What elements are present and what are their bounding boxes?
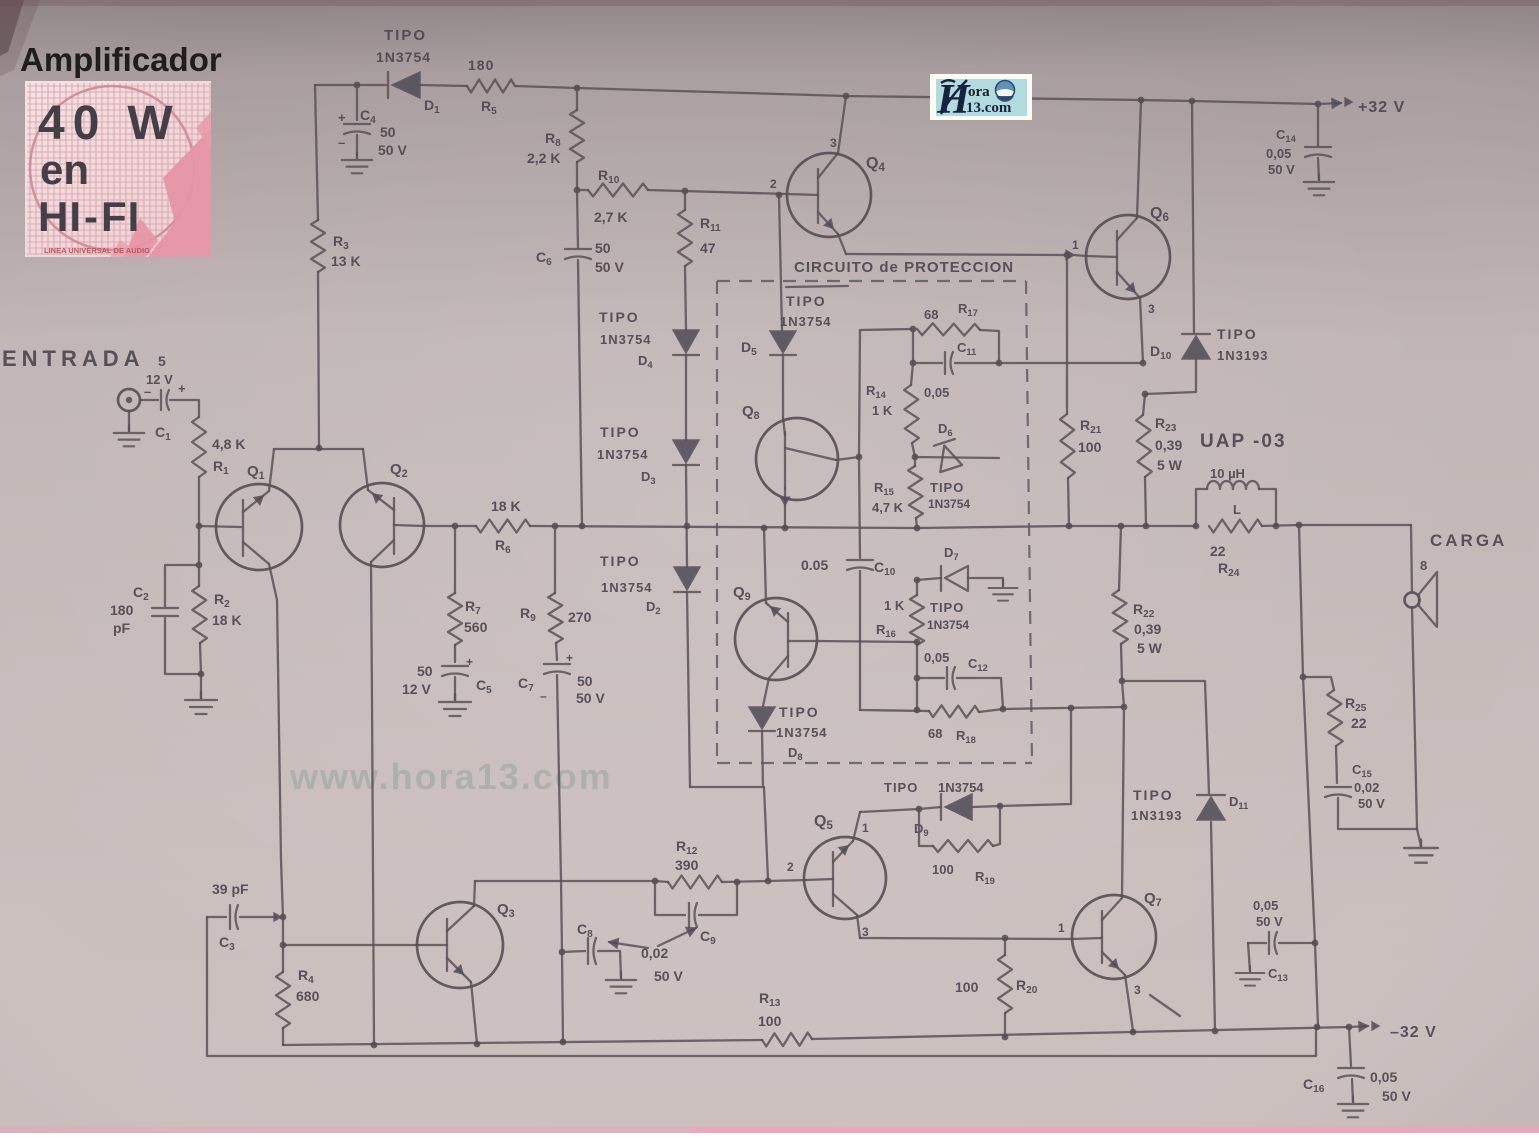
- svg-text:1N3193: 1N3193: [1217, 348, 1269, 363]
- resistor R3 13K: [311, 85, 361, 448]
- capacitor C9 0.02: [655, 881, 737, 947]
- svg-text:1 K: 1 K: [884, 598, 905, 613]
- svg-text:4,8 K: 4,8 K: [212, 436, 245, 452]
- resistor R8 2.2K: [527, 85, 584, 194]
- svg-text:1N3754: 1N3754: [776, 725, 828, 740]
- wire top rail +32V: [315, 84, 386, 86]
- wire bootstrap vertical to -32V junction: [1303, 677, 1318, 1026]
- resistor R25 22: [1299, 525, 1367, 783]
- resistor R11 47: [678, 188, 721, 330]
- resistor R10 2.7K: [577, 167, 787, 225]
- resistor R16 1K: [876, 580, 924, 710]
- resistor R21 100: [1060, 252, 1102, 530]
- capacitor C6 50 50V (bootstrap): [536, 190, 624, 526]
- svg-text:270: 270: [568, 609, 592, 625]
- resistor R18 68: [860, 705, 1006, 745]
- svg-text:TIPO: TIPO: [600, 553, 641, 569]
- svg-text:100: 100: [758, 1013, 782, 1029]
- wire common emitter bus: [274, 448, 363, 450]
- resistor R7 560: [448, 523, 488, 662]
- svg-text:1N3754: 1N3754: [938, 780, 984, 795]
- svg-text:1N3193: 1N3193: [1131, 808, 1183, 823]
- svg-text:180: 180: [110, 602, 134, 618]
- diode D3 1N3754: [597, 424, 699, 567]
- svg-text:12 V: 12 V: [402, 681, 431, 697]
- capacitor C10 0.05: [801, 457, 896, 710]
- svg-text:680: 680: [296, 988, 320, 1004]
- svg-text:18 K: 18 K: [212, 612, 242, 628]
- svg-text:50 V: 50 V: [576, 690, 605, 706]
- capacitor C7 50 50V: [518, 651, 605, 1042]
- +32V terminal: [1315, 98, 1406, 116]
- svg-text:–32 V: –32 V: [1390, 1024, 1437, 1041]
- diode D4 1N3754: [599, 309, 699, 440]
- resistor R17 68 + capacitor C11 0.05 network: [859, 301, 1143, 457]
- svg-text:2,7 K: 2,7 K: [594, 209, 627, 225]
- svg-text:0,39: 0,39: [1155, 437, 1182, 453]
- svg-text:560: 560: [464, 619, 488, 635]
- resistor R9 270: [520, 523, 592, 660]
- svg-text:47: 47: [700, 240, 716, 256]
- svg-text:13.com: 13.com: [966, 100, 1012, 116]
- transistor Q2: [340, 449, 424, 1045]
- svg-text:TIPO: TIPO: [1217, 326, 1258, 342]
- svg-text:UAP -03: UAP -03: [1200, 431, 1287, 452]
- svg-text:22: 22: [1351, 715, 1367, 731]
- svg-text:0,05: 0,05: [924, 385, 949, 400]
- svg-text:50: 50: [417, 663, 433, 679]
- svg-text:CARGA: CARGA: [1430, 531, 1507, 550]
- wire feedback bottom line: [207, 917, 1316, 1056]
- svg-text:L: L: [1233, 502, 1241, 517]
- diode D2 1N3754: [600, 553, 700, 787]
- svg-text:100: 100: [1078, 439, 1102, 455]
- resistor R15 4.7K: [872, 457, 923, 531]
- svg-text:2: 2: [770, 177, 777, 191]
- svg-text:ora: ora: [968, 84, 990, 100]
- svg-text:1N3754: 1N3754: [927, 618, 969, 632]
- transistor Q1: [216, 449, 302, 917]
- capacitor C2 180pF: [110, 562, 202, 674]
- inductor L 10uH with resistor R24 22: [1193, 466, 1276, 579]
- svg-text:TIPO: TIPO: [930, 480, 964, 495]
- transistor Q9: [733, 525, 917, 706]
- svg-text:8: 8: [1420, 558, 1427, 573]
- svg-text:50 V: 50 V: [1268, 162, 1295, 177]
- resistor R22 0.39 5W: [1112, 523, 1162, 685]
- svg-text:50 V: 50 V: [654, 968, 683, 984]
- resistor R20 100: [955, 935, 1038, 1041]
- wire Q3 collector to R12: [475, 880, 655, 882]
- capacitor C4 50 50V: [338, 82, 407, 174]
- resistor R4 680: [276, 945, 320, 1045]
- svg-text:CIRCUITO de PROTECCION: CIRCUITO de PROTECCION: [794, 259, 1014, 276]
- capacitor C13 0.05 50V: [1236, 898, 1319, 986]
- svg-text:TIPO: TIPO: [930, 600, 964, 615]
- svg-text:–: –: [338, 135, 345, 150]
- svg-text:3: 3: [1134, 983, 1141, 997]
- svg-text:0,05: 0,05: [1253, 898, 1278, 913]
- transistor Q5: [768, 812, 886, 939]
- svg-text:50: 50: [380, 124, 396, 140]
- svg-text:0.05: 0.05: [801, 557, 828, 573]
- svg-text:ENTRADA: ENTRADA: [2, 346, 145, 371]
- svg-text:1 K: 1 K: [872, 403, 893, 418]
- svg-text:2,2 K: 2,2 K: [527, 150, 560, 166]
- svg-text:+32 V: +32 V: [1358, 99, 1405, 116]
- svg-text:TIPO: TIPO: [1133, 787, 1174, 803]
- svg-text:LINEA UNIVERSAL DE AUDIO: LINEA UNIVERSAL DE AUDIO: [44, 246, 150, 255]
- svg-text:50 V: 50 V: [1382, 1088, 1411, 1104]
- svg-text:0,05: 0,05: [924, 650, 949, 665]
- svg-text:–: –: [144, 384, 151, 399]
- speaker CARGA: [1404, 525, 1507, 863]
- svg-text:50: 50: [577, 673, 593, 689]
- svg-text:68: 68: [924, 307, 938, 322]
- magazine badge 40W en HI-FI: [25, 81, 211, 257]
- capacitor C1: [144, 381, 199, 443]
- svg-text:13 K: 13 K: [331, 253, 361, 269]
- svg-text:1N3754: 1N3754: [601, 580, 653, 595]
- svg-text:TIPO: TIPO: [786, 293, 827, 309]
- resistor R2 18K: [185, 526, 242, 714]
- wire R22 bottom to D11: [1122, 681, 1209, 793]
- svg-text:390: 390: [675, 857, 699, 873]
- svg-text:1: 1: [862, 821, 869, 835]
- wire -32V rail: [283, 1040, 762, 1045]
- diode D7 1N3754: [914, 545, 1018, 632]
- capacitor C15 0.02 50V: [1325, 762, 1417, 829]
- svg-text:50 V: 50 V: [595, 259, 624, 275]
- svg-text:3: 3: [830, 136, 837, 150]
- svg-text:TIPO: TIPO: [599, 309, 640, 325]
- svg-text:50: 50: [595, 240, 611, 256]
- svg-text:5 W: 5 W: [1157, 457, 1183, 473]
- svg-text:+: +: [338, 110, 346, 125]
- svg-text:en: en: [40, 146, 89, 193]
- svg-text:2: 2: [787, 860, 794, 874]
- hora13 logo: [930, 74, 1032, 123]
- svg-text:1N3754: 1N3754: [780, 314, 832, 329]
- capacitor C8 0.02 50V: [559, 921, 637, 993]
- resistor R23 0.39 5W: [1136, 394, 1182, 529]
- capacitor C3 39pF: [207, 881, 286, 953]
- transistor Q3: [417, 881, 515, 1044]
- resistor R5 180: [467, 57, 515, 117]
- svg-text:100: 100: [955, 979, 979, 995]
- transistor Q8: [742, 403, 859, 528]
- svg-text:39 pF: 39 pF: [212, 881, 249, 897]
- capacitor C14 0.05 50V: [1266, 104, 1334, 195]
- resistor R14 1K: [866, 363, 949, 460]
- svg-text:18 K: 18 K: [491, 498, 521, 514]
- capacitor C12 0.05: [914, 650, 1003, 708]
- svg-text:22: 22: [1210, 543, 1226, 559]
- svg-text:0,05: 0,05: [1370, 1069, 1397, 1085]
- -32V terminal: [1349, 1022, 1437, 1041]
- diode D5 1N3754: [741, 192, 848, 418]
- svg-text:TIPO: TIPO: [600, 424, 641, 440]
- diode D11 1N3193: [1131, 787, 1248, 1034]
- wire R18 node to R22 node: [1003, 707, 1124, 709]
- transistor Q4: [770, 93, 885, 254]
- diode D6 1N3754: [915, 421, 999, 511]
- svg-text:1: 1: [1058, 921, 1065, 935]
- svg-text:0,05: 0,05: [1266, 146, 1291, 161]
- transistor Q7: [1058, 707, 1180, 1031]
- svg-text:0,39: 0,39: [1134, 621, 1161, 637]
- diode D9 1N3754: [860, 780, 1003, 838]
- svg-text:+: +: [178, 381, 186, 396]
- wire Q5 emitter to Q7 base: [860, 938, 1072, 939]
- svg-text:1N3754: 1N3754: [376, 49, 431, 65]
- svg-text:100: 100: [932, 862, 954, 877]
- protection circuit dashed box: [717, 281, 1032, 763]
- wire output/feedback rail: [424, 525, 476, 527]
- svg-text:5: 5: [158, 353, 166, 369]
- svg-text:1N3754: 1N3754: [600, 332, 652, 347]
- capacitor C5 50/12V: [402, 655, 492, 716]
- wire Q4 emitter to Q6 base: [846, 254, 1064, 255]
- diode D10 1N3193: [1140, 98, 1269, 398]
- svg-text:1: 1: [1072, 238, 1079, 252]
- svg-text:68: 68: [928, 726, 942, 741]
- svg-text:TIPO: TIPO: [779, 704, 820, 720]
- label 0.02 50V with arrows: [609, 928, 696, 985]
- capacitor C16 0.05 50V: [1303, 1027, 1411, 1117]
- svg-text:www.hora13.com: www.hora13.com: [289, 756, 613, 797]
- resistor R6 18K: [476, 498, 530, 556]
- transistor Q6: [1072, 97, 1170, 363]
- resistor R13 100: [758, 990, 812, 1046]
- svg-text:Amplificador: Amplificador: [20, 41, 222, 78]
- svg-text:10 µH: 10 µH: [1210, 466, 1245, 481]
- svg-text:50 V: 50 V: [1256, 914, 1283, 929]
- svg-text:50 V: 50 V: [1358, 796, 1385, 811]
- resistor R1 4.8K: [192, 417, 245, 526]
- svg-text:TIPO: TIPO: [884, 780, 918, 795]
- input jack: [114, 389, 158, 446]
- svg-text:50 V: 50 V: [378, 142, 407, 158]
- svg-text:5 W: 5 W: [1137, 640, 1163, 656]
- svg-text:4,7 K: 4,7 K: [872, 500, 904, 515]
- resistor R12 390: [652, 838, 772, 889]
- node Q1 base: [196, 523, 203, 530]
- svg-text:TIPO: TIPO: [384, 27, 427, 44]
- diode D1: [376, 27, 440, 116]
- wire Q5 collector node up to R18 node: [1000, 708, 1071, 806]
- svg-text:pF: pF: [113, 620, 131, 636]
- svg-text:180: 180: [468, 57, 494, 73]
- svg-text:HI-FI: HI-FI: [38, 193, 140, 240]
- svg-text:1N3754: 1N3754: [597, 447, 649, 462]
- diode D8 1N3754: [690, 704, 828, 880]
- svg-text:0,02: 0,02: [1354, 780, 1379, 795]
- node Q3 base: [280, 942, 287, 949]
- resistor R19 100: [919, 806, 1000, 886]
- svg-text:1N3754: 1N3754: [928, 497, 970, 511]
- svg-text:3: 3: [1148, 302, 1155, 316]
- svg-text:–: –: [540, 689, 547, 703]
